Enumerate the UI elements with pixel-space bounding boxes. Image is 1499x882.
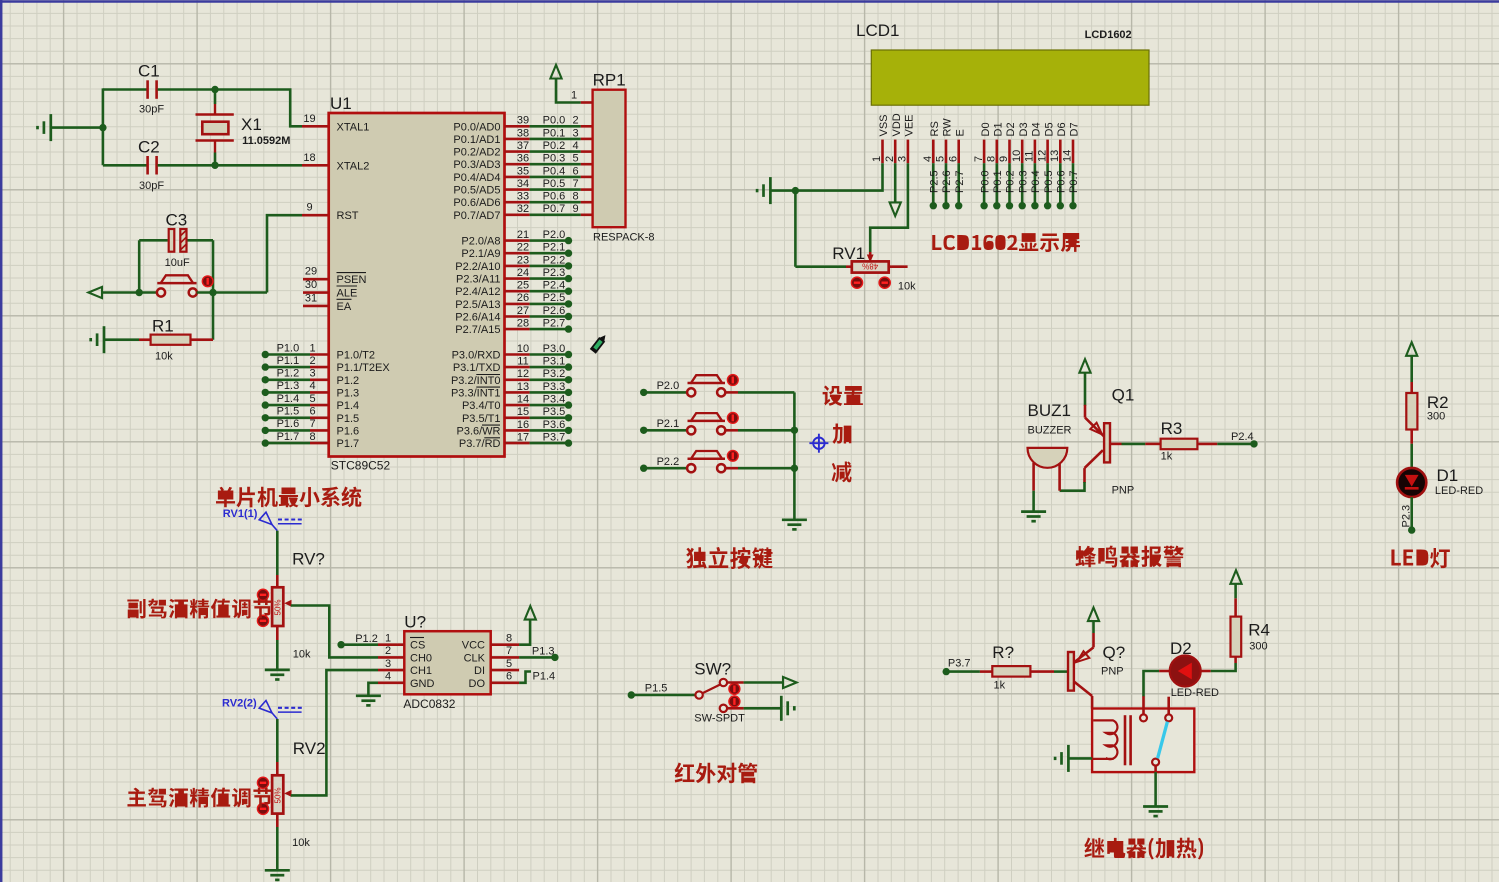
svg-text:DO: DO [469,678,486,690]
pin 1 P1.0 [262,351,269,358]
svg-text:P0.1: P0.1 [543,127,566,139]
wire power to Q1 emitter [1084,373,1087,406]
relay contact common [1142,696,1145,714]
ground (ADC) [356,694,381,697]
svg-text:CS: CS [410,640,425,652]
transistor Q1 PNP [1084,405,1087,418]
svg-text:RW: RW [942,118,954,137]
wire node A to XTAL1 [214,90,302,127]
wire RV2 wiper to CH1 [291,670,378,795]
ground (relay pole) [1143,805,1168,808]
ground (RV2) [265,869,290,872]
svg-text:P0.1/AD1: P0.1/AD1 [453,134,500,146]
marker (RV1 -) [851,277,862,288]
wire to C1 [103,88,147,91]
svg-text:1: 1 [309,342,315,354]
svg-text:P0.7/AD7: P0.7/AD7 [453,210,500,222]
power terminal (ADC) [525,606,536,620]
svg-text:10uF: 10uF [165,257,190,269]
wire R1 to riser [191,338,214,341]
svg-text:10: 10 [1011,150,1023,162]
marker (button 1) [727,375,738,386]
svg-text:14: 14 [1062,150,1074,162]
wire R? to Q? base [1054,670,1068,673]
svg-text:P0.2/AD2: P0.2/AD2 [453,147,500,159]
wire LCD D5 to P0.5 [1046,163,1049,206]
svg-text:3: 3 [309,368,315,380]
ground (LCD VSS) [769,177,772,204]
junction node A [211,86,218,93]
svg-text:1: 1 [385,633,391,645]
svg-text:P3.6: P3.6 [543,419,566,431]
svg-text:9: 9 [306,202,312,214]
marker (button 3) [727,450,738,461]
label fujia jiujingzhi tiaojie [127,599,272,619]
label danpianji zuixiao xitong [216,486,361,507]
pin 35 P0.4/AD4 [505,176,530,179]
relay core bars [1124,715,1127,765]
svg-text:6: 6 [947,156,959,162]
resistor pack RP1 body [593,90,626,228]
svg-text:SW-SPDT: SW-SPDT [694,713,745,725]
svg-text:RST: RST [337,210,359,222]
ground bus riser (buttons) [793,392,796,518]
svg-text:RV2: RV2 [293,739,326,758]
wire R3 to P2.4 [1217,443,1254,446]
wire DO to P1.4 [519,672,531,683]
wire RV? to ground [276,626,279,640]
svg-text:D2: D2 [1005,122,1017,136]
label fengmingqi baojing [1076,546,1184,568]
wire LCD RW to P2.6 [945,163,948,206]
wire LCD RS to P2.5 [932,163,935,206]
svg-text:26: 26 [517,292,529,304]
svg-text:P2.6/A14: P2.6/A14 [455,312,500,324]
svg-text:P0.1: P0.1 [992,170,1004,193]
wire LCD E to P2.7 [957,163,960,206]
svg-text:VSS: VSS [878,114,890,136]
svg-text:2: 2 [572,115,578,127]
svg-text:BUZZER: BUZZER [1028,425,1072,437]
svg-text:3: 3 [385,658,391,670]
pin 2 RP1 stub [581,125,593,128]
svg-text:4: 4 [385,671,391,683]
power terminal (Q?) [1088,608,1099,622]
ground (buttons) [782,518,807,521]
svg-text:P3.4: P3.4 [543,394,566,406]
svg-text:P2.2: P2.2 [543,254,566,266]
wire LCD D2 to P0.2 [1008,163,1011,206]
pin 24 P2.3/A11 [505,277,530,280]
svg-text:P1.7: P1.7 [337,438,360,450]
wire Q? collector to relay coil [1091,696,1094,709]
crystal X1 [214,90,217,105]
svg-text:11.0592M: 11.0592M [242,135,290,147]
riser C3/button/R1 [212,240,215,339]
pin 8 RP1 stub [581,201,593,204]
wire ground to coil [1068,757,1092,760]
pin RV1 right stub [888,265,907,268]
svg-text:VDD: VDD [891,113,903,136]
svg-text:8: 8 [572,191,578,203]
svg-text:19: 19 [303,113,315,125]
svg-text:VCC: VCC [462,640,485,652]
power terminal (R2) [1406,342,1417,356]
wire GND to ground [368,683,378,695]
svg-text:P2.0: P2.0 [657,380,680,392]
resistor R2 [1410,382,1413,393]
marker (RV2 up) [257,777,268,788]
svg-text:P1.4: P1.4 [277,393,300,405]
svg-text:VEE: VEE [904,114,916,136]
svg-text:10k: 10k [293,649,311,661]
potentiometer RV? [276,575,279,587]
svg-text:34: 34 [517,178,529,190]
svg-text:P0.4/AD4: P0.4/AD4 [453,172,500,184]
marker (button 2) [727,413,738,424]
svg-text:U1: U1 [330,94,352,113]
svg-text:2: 2 [309,355,315,367]
resistor R4 [1234,657,1237,663]
origin marker [809,434,828,453]
svg-text:D6: D6 [1056,122,1068,136]
power terminal (RP1) [550,65,561,79]
svg-text:P2.1: P2.1 [657,418,680,430]
svg-text:P0.5/AD5: P0.5/AD5 [453,185,500,197]
wire RV2 to ground [276,814,279,827]
svg-text:10k: 10k [898,281,916,293]
svg-text:D7: D7 [1069,122,1081,136]
svg-text:33: 33 [517,191,529,203]
wire LCD D0 to P0.0 [983,163,986,206]
op IC U1 STC89C52 body [329,113,505,457]
wire power to R2 [1410,356,1413,382]
svg-text:5: 5 [935,156,947,162]
pin 7 P1.6 [262,427,269,434]
pin 31 EA [303,305,329,308]
pin 13 P3.3/INT1 [505,391,530,394]
pin 15 P3.5/T1 [505,416,530,419]
power terminal (reset, pointing left) [88,287,102,298]
wire Q1 base to R3 [1110,443,1122,446]
power terminal (Q1) [1079,359,1090,373]
wire ground to node [51,126,103,129]
svg-text:12: 12 [1036,150,1048,162]
svg-text:5: 5 [506,658,512,670]
svg-text:RP1: RP1 [593,71,626,90]
svg-text:P0.2: P0.2 [543,140,566,152]
wire C1-C2 left bus [102,88,105,165]
svg-text:50%: 50% [274,787,283,803]
wire VEE to RV1 wiper [870,163,908,252]
label jia [832,423,851,443]
wire ground to R1 [104,338,139,341]
svg-text:C1: C1 [138,62,160,81]
pin 7 CLK [491,656,519,659]
svg-text:15: 15 [517,406,529,418]
svg-text:P3.4/T0: P3.4/T0 [462,400,501,412]
sheet border left [0,0,2,882]
pin 1 CS [378,643,404,646]
wire buzzer to ground [1032,491,1035,511]
relay RL (heater) body [1092,709,1194,773]
svg-text:CLK: CLK [464,652,486,664]
svg-text:P0.6: P0.6 [1056,170,1068,193]
wire up to C3 [138,240,141,292]
svg-text:PSEN: PSEN [337,274,367,286]
pin 27 P2.6/A14 [505,315,530,318]
pin 28 P2.7/A15 [505,328,530,331]
svg-text:30: 30 [305,279,317,291]
svg-text:P2.2/A10: P2.2/A10 [455,261,500,273]
svg-text:1: 1 [571,90,577,102]
svg-text:RESPACK-8: RESPACK-8 [593,231,655,243]
wire button 3 to ground bus [726,467,739,470]
svg-text:28: 28 [517,318,529,330]
svg-text:P1.3: P1.3 [532,646,555,658]
svg-text:D1: D1 [993,122,1005,136]
wire D2 to R4 [1211,663,1236,671]
svg-text:LCD1602: LCD1602 [1085,29,1132,41]
pin 14 P3.4/T0 [505,404,530,407]
svg-text:XTAL1: XTAL1 [337,121,370,133]
wire CLK to P1.3 [519,656,555,659]
svg-text:GND: GND [410,678,435,690]
label jidianqi (jiare) [1084,837,1203,859]
junction button bus 2 [791,465,798,472]
ground (RV?) [265,669,290,672]
svg-text:P3.5: P3.5 [543,406,566,418]
power terminal (SW, pointing right) [783,677,797,688]
wire relay pole to ground [1154,772,1157,805]
LED D1 [1410,467,1413,470]
svg-text:P2.5: P2.5 [929,170,941,193]
svg-text:P0.7: P0.7 [1068,170,1080,193]
svg-text:Q?: Q? [1103,643,1126,662]
svg-text:10: 10 [517,343,529,355]
LED D2 [1159,670,1170,673]
potentiometer RV1 [869,252,872,258]
wire LCD D6 to P0.6 [1059,163,1062,206]
wire LCD D4 to P0.4 [1034,163,1037,206]
svg-text:16: 16 [517,419,529,431]
svg-text:1k: 1k [1161,451,1173,463]
svg-text:R1: R1 [152,317,174,336]
wire button to RST [197,291,267,294]
svg-text:P3.0: P3.0 [543,343,566,355]
pin 37 P0.2/AD2 [505,150,530,153]
svg-text:6: 6 [572,165,578,177]
pin 26 P2.5/A13 [505,303,530,306]
label zhujia jiujingzhi tiaojie [127,788,271,808]
svg-text:D4: D4 [1031,122,1043,136]
svg-text:RV1(1): RV1(1) [223,508,258,520]
svg-text:P0.4: P0.4 [1030,170,1042,193]
pin 16 P3.6/WR [505,429,530,432]
node P1.5 [628,691,635,698]
resistor R? [980,670,992,673]
svg-text:P3.7: P3.7 [543,431,566,443]
svg-text:7: 7 [506,645,512,657]
svg-text:P2.4/A12: P2.4/A12 [455,286,500,298]
svg-text:P1.4: P1.4 [533,671,556,683]
svg-text:P0.6/AD6: P0.6/AD6 [453,197,500,209]
svg-text:4: 4 [572,140,578,152]
svg-text:1: 1 [871,156,883,162]
svg-text:P3.1/TXD: P3.1/TXD [453,362,501,374]
svg-text:P2.0/A8: P2.0/A8 [461,236,500,248]
svg-text:9: 9 [998,156,1010,162]
pin 9 RP1 stub [581,214,593,217]
wire LCD D7 to P0.7 [1072,163,1075,206]
svg-text:30pF: 30pF [139,180,164,192]
svg-text:P3.7/RD: P3.7/RD [459,438,501,450]
node P2.4 [1250,440,1257,447]
svg-text:RV?: RV? [292,550,325,569]
wire power to button [102,291,157,294]
pin 21 P2.0/A8 [505,239,530,242]
pin 6 P1.5 [262,414,269,421]
svg-text:P0.0: P0.0 [979,170,991,193]
svg-text:D3: D3 [1018,122,1030,136]
svg-text:13: 13 [1049,150,1061,162]
pin 25 P2.4/A12 [505,290,530,293]
svg-text:7: 7 [309,418,315,430]
svg-text:P1.2: P1.2 [277,368,300,380]
svg-text:P0.4: P0.4 [543,165,566,177]
svg-text:R3: R3 [1161,419,1183,438]
pin 2 CH0 [378,656,404,659]
svg-text:50%: 50% [274,599,283,615]
relay contact NO pin [1167,697,1170,715]
marker (RV? up) [257,589,268,600]
svg-text:P1.5: P1.5 [337,413,360,425]
svg-text:R4: R4 [1248,621,1270,640]
potentiometer RV2 [276,762,279,775]
svg-text:E: E [954,129,966,136]
svg-text:13: 13 [517,381,529,393]
label jian [832,462,852,483]
node P2.2 (button) [640,465,647,472]
svg-text:STC89C52: STC89C52 [331,459,391,473]
svg-text:LCD1: LCD1 [856,21,899,40]
svg-text:P1.3: P1.3 [277,380,300,392]
wire P2.2 to button [644,467,687,470]
wire P1.2 to CS [341,643,378,646]
push button 1 [687,388,695,396]
svg-text:P1.6: P1.6 [337,425,360,437]
svg-text:P2.4: P2.4 [543,280,566,292]
wire C3 to riser [188,239,214,242]
pin 19 XTAL1 stub [302,125,329,128]
svg-text:P2.5/A13: P2.5/A13 [455,299,500,311]
svg-text:ALE: ALE [337,288,358,300]
svg-text:4: 4 [309,380,315,392]
pin 36 P0.3/AD3 [505,163,530,166]
svg-text:9: 9 [572,203,578,215]
junction node B [211,162,218,169]
svg-text:P3.0/RXD: P3.0/RXD [452,350,501,362]
wire C1 to node A [158,88,214,91]
svg-text:D5: D5 [1043,122,1055,136]
wire probe to RV2 [276,719,279,762]
wire P2.0 to button [644,391,687,394]
junction button right [209,289,216,296]
node P1.2 [337,641,344,648]
svg-text:P0.5: P0.5 [1043,170,1055,193]
svg-text:X1: X1 [241,115,262,134]
node P3.7 [943,668,950,675]
wire LCD D1 to P0.1 [995,163,998,206]
pin 11 P3.1/TXD [505,366,530,369]
svg-text:P1.4: P1.4 [337,400,360,412]
svg-text:P1.7: P1.7 [277,431,300,443]
marker (RV2 down) [257,803,268,814]
svg-text:D1: D1 [1437,466,1459,485]
marker (SW up) [729,683,740,694]
svg-text:6: 6 [506,671,512,683]
node P2.3 [1408,526,1415,533]
pin 29 PSEN [303,278,329,281]
svg-text:27: 27 [517,305,529,317]
wire C2 to node B [158,164,214,167]
svg-text:37: 37 [517,140,529,152]
pin 30 ALE [303,291,329,294]
svg-text:P2.1: P2.1 [543,242,566,254]
pin 39 P0.0/AD0 [505,125,530,128]
pencil cursor [591,333,608,353]
wire throw2 to ground [727,707,743,710]
node P2.0 (button) [640,389,647,396]
svg-text:P3.6/WR: P3.6/WR [456,425,500,437]
svg-text:P3.7: P3.7 [948,658,971,670]
junction VSS/RV1 [792,187,799,194]
relay lever (cyan) [1158,722,1168,759]
pin 12 P3.2/INT0 [505,378,530,381]
svg-text:P2.7: P2.7 [954,170,966,193]
svg-text:P2.0: P2.0 [543,229,566,241]
pin 2 P1.1 [262,363,269,370]
pin 1 RP1 stub [581,101,593,104]
svg-text:EA: EA [337,301,352,313]
capacitor C3 (electrolytic) [169,229,175,252]
wire P2.1 to button [644,429,687,432]
pin 4 RP1 stub [581,150,593,153]
pin 7 RP1 stub [581,188,593,191]
wire probe to RV? [276,531,279,575]
wire VCC to power [519,621,530,645]
wire throw1 to power [727,681,743,684]
pin 34 P0.5/AD5 [505,188,530,191]
wire LCD D3 to P0.3 [1021,163,1024,206]
svg-text:P3.3/INT1: P3.3/INT1 [451,387,501,399]
pin 3 RP1 stub [581,138,593,141]
svg-text:P2.7: P2.7 [543,318,566,330]
svg-text:P3.2/INT0: P3.2/INT0 [451,375,501,387]
svg-text:5: 5 [309,393,315,405]
pin 8 VCC [491,643,519,646]
svg-text:P2.5: P2.5 [543,292,566,304]
svg-text:CH0: CH0 [410,652,432,664]
wire button 2 to ground bus [726,429,739,432]
wire power to RP1 pin 1 [556,79,581,103]
svg-text:300: 300 [1427,411,1445,423]
svg-text:8: 8 [506,633,512,645]
node P1.3 [551,654,558,661]
svg-text:C3: C3 [166,211,188,230]
power terminal (LCD VDD, pointing down) [894,163,897,202]
svg-text:P1.3: P1.3 [337,387,360,399]
